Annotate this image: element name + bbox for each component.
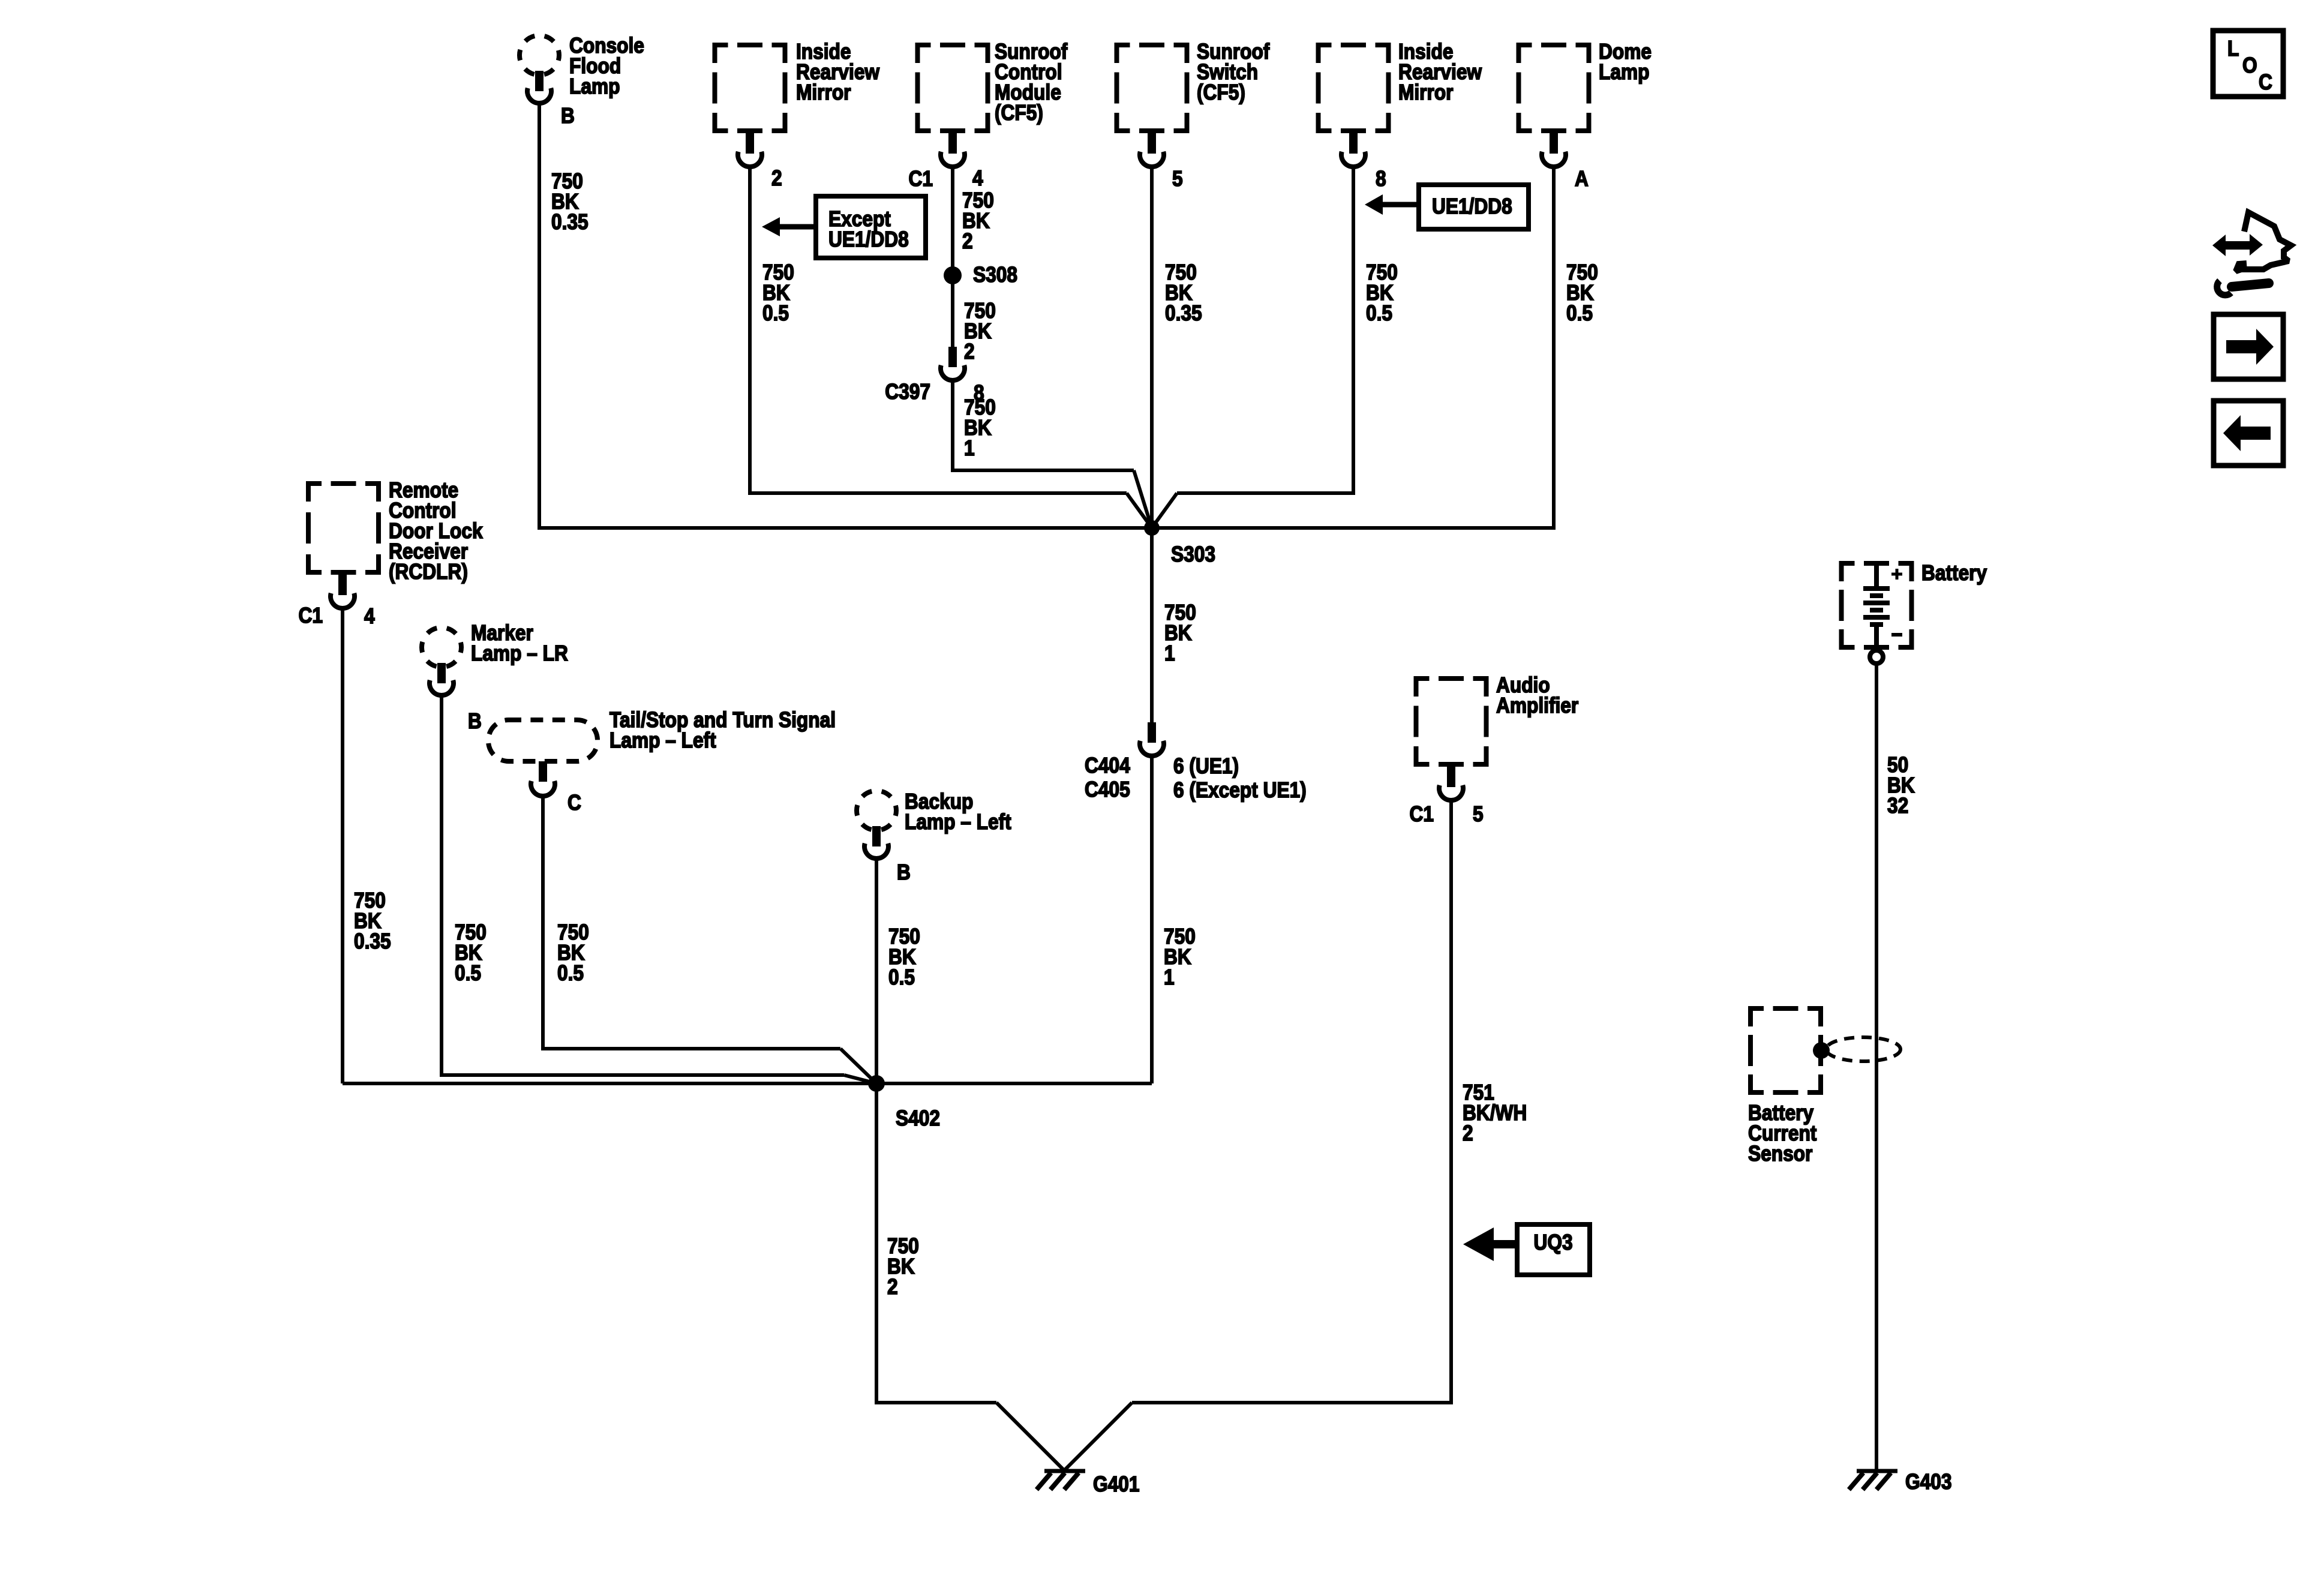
wire 750 BK 0.5 Backup Lamp vertical through S402 <box>875 859 878 1403</box>
svg-text:B: B <box>468 709 482 733</box>
ground bus wire into splice S303 <box>538 526 1556 530</box>
pin 4 of Sunroof Control Module <box>972 166 983 190</box>
svg-text:A: A <box>1575 167 1589 191</box>
label wire 750 BK 0.35 (console flood lamp) <box>551 169 588 234</box>
component box Sunroof Control Module <box>918 45 988 131</box>
junction dot on Battery Current Sensor <box>1813 1042 1830 1059</box>
wire 750 BK 1 from C404 down <box>1150 757 1154 1083</box>
connector of Marker Lamp - LR <box>430 663 454 695</box>
connector of Sunroof Control Module <box>941 133 965 167</box>
svg-text:C397: C397 <box>885 380 930 404</box>
wire diagonal into S402 from Tail/Stop Lamp <box>840 1049 876 1083</box>
label wire 750 BK 0.35 (sunroof switch) <box>1165 260 1202 325</box>
splice S308 <box>944 266 962 284</box>
label Dome Lamp <box>1599 40 1652 84</box>
wire 750 BK 0.35 Console Flood Lamp vertical <box>538 102 541 528</box>
wire diagonal into S303 from left mirror <box>1127 493 1152 528</box>
wire 750 BK 0.5 Marker Lamp vertical <box>440 696 443 1075</box>
option callout box Except UE1/DD8 <box>816 196 926 258</box>
battery negative terminal circle <box>1870 650 1883 664</box>
svg-text:S303: S303 <box>1171 542 1215 566</box>
legend LOC box <box>2213 31 2283 97</box>
svg-text:L: L <box>2227 37 2239 61</box>
label wire 750 BK 1 (above S402) <box>1164 924 1196 989</box>
wire 750 BK 0.35 Sunroof Switch vertical <box>1150 168 1154 725</box>
label Sunroof Control Module (CF5) <box>995 40 1068 125</box>
svg-text:C: C <box>568 791 581 815</box>
label Marker Lamp - LR <box>471 621 568 665</box>
pin stub and connector cup of Console Flood Lamp <box>527 71 551 103</box>
pin B of Marker Lamp - LR <box>468 709 482 733</box>
label Inside Rearview Mirror (right) <box>1398 40 1482 104</box>
in-line connector C397 <box>941 347 965 380</box>
battery cell symbol inside Battery box <box>1863 561 1902 650</box>
label Sunroof Switch (CF5) <box>1197 40 1270 104</box>
component box Inside Rearview Mirror (left) <box>715 45 785 131</box>
label wire 750 BK 0.5 (right mirror) <box>1366 260 1398 325</box>
arrow from UE1/DD8 box to wire <box>1365 194 1419 215</box>
label Battery Current Sensor <box>1748 1101 1816 1166</box>
svg-text:B: B <box>897 860 911 884</box>
wire 750 BK 1 below C397 <box>951 382 954 470</box>
label Remote Control Door Lock Receiver (RCDLR) <box>389 478 483 584</box>
wire RCDLR horizontal run into S402 <box>343 1082 876 1085</box>
pin 4 of RCDLR <box>364 604 375 628</box>
component box Audio Amplifier <box>1416 679 1487 764</box>
connector label C1 of Audio Amplifier <box>1410 802 1434 826</box>
lamp Console Flood Lamp (dashed bulb symbol) <box>520 35 559 75</box>
svg-text:C1: C1 <box>1410 802 1434 826</box>
label Audio Amplifier <box>1496 673 1578 718</box>
pin B of Backup Lamp - Left <box>897 860 911 884</box>
connector of Inside Rearview Mirror (left) <box>738 133 762 167</box>
label wire 750 BK 0.5 (backup lamp) <box>888 924 920 989</box>
svg-text:G403: G403 <box>1905 1470 1951 1494</box>
wire diagonal into S402 from Marker Lamp <box>844 1075 876 1083</box>
label splice S402 <box>896 1106 940 1130</box>
legend back arrow box <box>2214 401 2283 466</box>
component box Remote Control Door Lock Receiver <box>308 484 379 572</box>
wire 750 BK 0.5 Inside Rearview Mirror right vertical <box>1352 168 1355 493</box>
svg-text:DomeLamp: DomeLamp <box>1599 40 1652 84</box>
pin 8 of Inside Rearview Mirror (right) <box>1376 167 1386 191</box>
wire C397 horizontal run <box>951 469 1134 472</box>
pin B of Console Flood Lamp <box>561 104 575 128</box>
connector of RCDLR <box>331 575 355 608</box>
connector of Sunroof Switch <box>1140 133 1164 167</box>
pin 6 labels of C404/C405 <box>1173 754 1307 802</box>
pin 5 of Audio Amplifier <box>1473 802 1484 826</box>
svg-text:C404C405: C404C405 <box>1085 754 1130 801</box>
ground G401 symbol <box>1037 1471 1085 1490</box>
svg-text:4: 4 <box>972 166 983 190</box>
svg-text:UQ3: UQ3 <box>1533 1230 1572 1254</box>
splice S402 junction <box>868 1075 885 1092</box>
connector label C1 of RCDLR <box>299 604 323 628</box>
label wire 750 BK 2 (below S308) <box>964 299 996 364</box>
wire right diagonal into G401 <box>1064 1403 1132 1470</box>
label splice S303 <box>1171 542 1215 566</box>
pin C of Tail/Stop Lamp <box>568 791 581 815</box>
label wire 751 BK/WH 2 <box>1463 1080 1527 1145</box>
splice S303 junction <box>1144 520 1160 536</box>
connector of Tail/Stop Lamp <box>531 761 555 796</box>
label Inside Rearview Mirror (left) <box>796 40 880 104</box>
component box Battery <box>1842 563 1912 647</box>
label wire 750 BK 0.5 (left mirror) <box>762 260 794 325</box>
wire Tail/Stop Lamp horizontal run <box>541 1047 840 1050</box>
pin 5 of Sunroof Switch <box>1172 167 1183 191</box>
component box Battery Current Sensor <box>1750 1008 1821 1092</box>
component box Inside Rearview Mirror (right) <box>1319 45 1389 131</box>
wire 750 BK 0.5 Tail/Stop Lamp vertical <box>541 797 545 1049</box>
connector label C1 of Sunroof Control Module <box>909 167 933 191</box>
wire 750 BK 2 Sunroof Control Module upper segment <box>951 168 954 349</box>
wire 750 BK 0.5 Inside Rearview Mirror left vertical <box>748 168 752 493</box>
lamp Marker Lamp - LR (dashed bulb symbol) <box>422 628 461 667</box>
label ground G401 <box>1093 1472 1139 1496</box>
label wire 750 BK 1 (below S303) <box>1164 601 1196 665</box>
svg-text:S402: S402 <box>896 1106 940 1130</box>
label wire 750 BK 2 (above S308) <box>962 188 994 253</box>
wire C404 horizontal run into S402 <box>876 1082 1152 1085</box>
label wire 750 BK 0.5 (dome lamp) <box>1566 260 1598 325</box>
lamp Tail/Stop and Turn Signal Lamp - Left (dashed symbol) <box>488 720 597 761</box>
wire diagonal into S303 from C397 <box>1134 470 1152 528</box>
label wire 750 BK 0.5 (marker lamp) <box>455 920 487 985</box>
svg-text:C1: C1 <box>299 604 323 628</box>
dashed sensing loop around battery cable <box>1826 1037 1900 1061</box>
svg-text:Battery: Battery <box>1921 561 1987 585</box>
connector of Audio Amplifier <box>1439 767 1463 800</box>
arrow from Except UE1/DD8 box to wire <box>762 217 816 236</box>
connector of Backup Lamp - Left <box>864 826 888 858</box>
pin A of Dome Lamp <box>1575 167 1589 191</box>
label wire 750 BK 0.35 (RCDLR) <box>354 888 391 953</box>
pin 8 of connector C397 <box>974 381 984 405</box>
connector label C404 C405 <box>1085 754 1130 801</box>
ground G403 symbol <box>1849 1471 1897 1490</box>
svg-text:B: B <box>561 104 575 128</box>
svg-text:G401: G401 <box>1093 1472 1139 1496</box>
label splice S308 <box>973 263 1017 287</box>
svg-text:4: 4 <box>364 604 375 628</box>
wire Marker Lamp horizontal run <box>440 1073 844 1077</box>
arrow from UQ3 box to wire <box>1463 1227 1518 1261</box>
legend forward arrow box <box>2214 314 2283 379</box>
label wire 50 BK 32 <box>1887 753 1915 818</box>
connector of Dome Lamp <box>1542 133 1566 167</box>
component box Dome Lamp <box>1519 45 1589 131</box>
wire diagonal into S303 from right mirror <box>1152 493 1177 528</box>
wire left horizontal to G401 <box>875 1401 996 1404</box>
svg-text:5: 5 <box>1473 802 1484 826</box>
label Tail/Stop and Turn Signal Lamp - Left <box>609 708 836 752</box>
wire Inside Rearview Mirror left horizontal run <box>748 491 1127 495</box>
wire 750 BK 0.5 Dome Lamp vertical <box>1552 168 1556 530</box>
option callout box UE1/DD8 <box>1419 185 1529 229</box>
label ground G403 <box>1905 1470 1951 1494</box>
lamp Backup Lamp - Left (dashed bulb symbol) <box>857 791 896 830</box>
option callout box UQ3 <box>1517 1224 1590 1275</box>
wire 50 BK 32 Battery vertical <box>1875 664 1878 1469</box>
pin 2 of Inside Rearview Mirror (left) <box>771 166 782 190</box>
label Battery <box>1921 561 1987 585</box>
label wire 750 BK 2 (below S402) <box>887 1234 919 1299</box>
connector label C397 <box>885 380 930 404</box>
label Backup Lamp - Left <box>905 789 1011 834</box>
svg-text:2: 2 <box>771 166 782 190</box>
wire 751 BK/WH 2 Audio Amplifier vertical <box>1449 801 1453 1403</box>
svg-text:C1: C1 <box>909 167 933 191</box>
label wire 750 BK 0.5 (tail/stop lamp) <box>557 920 589 985</box>
wire Inside Rearview Mirror right horizontal run <box>1177 491 1355 495</box>
label wire 750 BK 1 (below C397) <box>964 395 996 460</box>
svg-text:BatteryCurrentSensor: BatteryCurrentSensor <box>1748 1101 1816 1166</box>
svg-text:5: 5 <box>1172 167 1183 191</box>
svg-text:UE1/DD8: UE1/DD8 <box>1432 194 1512 218</box>
in-line connector C404/C405 <box>1140 722 1164 756</box>
wire right horizontal to G401 <box>1132 1401 1453 1404</box>
wire left diagonal into G401 <box>996 1403 1064 1470</box>
component box Sunroof Switch <box>1117 45 1187 131</box>
svg-text:C: C <box>2259 70 2272 94</box>
svg-text:8: 8 <box>1376 167 1386 191</box>
svg-text:S308: S308 <box>973 263 1017 287</box>
legend service icon (arrows and wrench) <box>2212 212 2291 295</box>
svg-text:O: O <box>2242 53 2257 77</box>
wire 750 BK 0.35 RCDLR vertical <box>341 610 344 1083</box>
connector of Inside Rearview Mirror (right) <box>1341 133 1365 167</box>
label Console Flood Lamp <box>569 34 644 98</box>
